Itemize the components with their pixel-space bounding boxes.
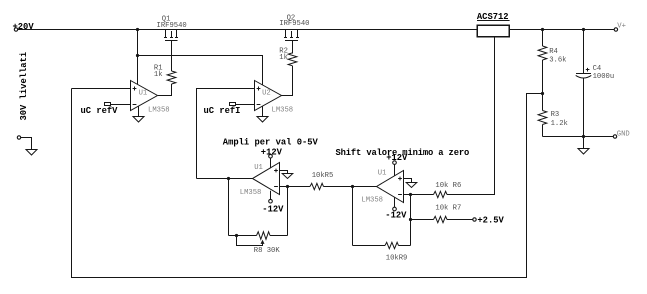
node uC refI port bbox=[230, 103, 236, 106]
svg-text:uC refI: uC refI bbox=[204, 106, 241, 116]
svg-text:IRF9540: IRF9540 bbox=[157, 22, 187, 30]
svg-text:LM358: LM358 bbox=[240, 189, 262, 197]
node +20V terminal bbox=[13, 22, 35, 32]
sensor ACS712 bbox=[477, 12, 510, 37]
wire ACS712 out to V+ bbox=[509, 29, 614, 31]
wire junction dot R9 tap bbox=[351, 185, 354, 188]
node -12V stage1 bbox=[262, 191, 284, 215]
resistor R3 bbox=[538, 94, 547, 137]
wire uC refV to U1 inverting input bbox=[111, 104, 132, 106]
op-amp U1 stage1 mirrored bbox=[253, 163, 280, 195]
wire junction dot stage1 output bbox=[227, 177, 230, 180]
resistor R6 bbox=[434, 191, 448, 197]
svg-text:R3: R3 bbox=[551, 111, 560, 119]
svg-text:30V livellati: 30V livellati bbox=[19, 52, 29, 121]
transistor Q2 bbox=[284, 30, 299, 41]
ground U2 V- bbox=[257, 106, 268, 122]
wire U2 noninverting input from stage1 output bbox=[197, 89, 255, 179]
svg-text:C4: C4 bbox=[593, 65, 602, 73]
svg-text:1.2k: 1.2k bbox=[551, 120, 568, 128]
wire stage1 inverting row bbox=[280, 186, 311, 188]
op-amp U1 shift mirrored bbox=[377, 171, 404, 203]
wire R7 to +2.5V terminal bbox=[447, 219, 473, 221]
wire junction dot rail2 bbox=[136, 54, 139, 57]
svg-text:10k R6: 10k R6 bbox=[435, 182, 461, 190]
wire U1 noninverting input to left loop bbox=[72, 88, 132, 90]
wire shift inverting row to R6 bbox=[404, 194, 434, 196]
wire stage1 output bbox=[197, 178, 253, 180]
svg-text:V+: V+ bbox=[617, 23, 626, 31]
wire R5 to shift output bbox=[324, 186, 378, 188]
svg-text:LM358: LM358 bbox=[148, 106, 170, 114]
node V+ terminal bbox=[614, 23, 626, 31]
wire uC refI to U2 inverting input bbox=[236, 104, 255, 106]
ground input connector bbox=[26, 150, 37, 156]
capacitor C4 bbox=[576, 30, 592, 137]
transistor Q1 bbox=[164, 30, 178, 41]
svg-text:U2: U2 bbox=[262, 89, 271, 97]
svg-text:R8 30K: R8 30K bbox=[254, 247, 281, 255]
svg-text:LM358: LM358 bbox=[272, 106, 294, 114]
node GND terminal bbox=[613, 131, 629, 139]
svg-text:uC refV: uC refV bbox=[81, 106, 119, 116]
svg-text:-12V: -12V bbox=[385, 210, 407, 220]
wire junction dot R8 to inverting bbox=[286, 185, 289, 188]
wire U2 output to R2 bbox=[282, 66, 293, 96]
wire junction dot C4 top bbox=[582, 28, 585, 31]
wire vertical +20V to U1 V+ pin bbox=[137, 30, 139, 85]
ground main GND bbox=[578, 137, 589, 155]
svg-text:U1: U1 bbox=[139, 89, 148, 97]
wire R3 to GND terminal bbox=[543, 136, 614, 138]
node input ground terminal bbox=[17, 136, 31, 150]
resistor R8 trimmer bbox=[229, 179, 288, 246]
svg-text:Ampli per val 0-5V: Ampli per val 0-5V bbox=[223, 137, 319, 147]
wire R6 to ACS712 out bbox=[447, 37, 495, 194]
node -12V shift bbox=[385, 197, 407, 220]
wire junction dot R7 tap bbox=[409, 218, 412, 221]
wire rail2 to U2 V+ bbox=[138, 56, 263, 86]
wire left feedback loop bbox=[72, 89, 543, 278]
svg-text:10kR5: 10kR5 bbox=[312, 172, 334, 180]
svg-text:+2.5V: +2.5V bbox=[477, 215, 504, 225]
resistor R1 bbox=[167, 71, 176, 84]
wire junction dot rail to U1 V+ bbox=[136, 28, 139, 31]
svg-text:U1: U1 bbox=[254, 164, 263, 172]
wire +20V top rail bbox=[18, 29, 477, 31]
wire junction dot divider bbox=[541, 92, 544, 95]
svg-text:+20V: +20V bbox=[13, 22, 35, 32]
resistor R4 bbox=[538, 30, 547, 94]
wire junction dot C4 bottom bbox=[582, 135, 585, 138]
wire junction dot R4 top bbox=[541, 28, 544, 31]
op-amp U1 bbox=[131, 81, 158, 111]
ground stage1 noninverting input bbox=[280, 171, 293, 179]
svg-text:-12V: -12V bbox=[262, 204, 284, 214]
wire R7 row bbox=[411, 219, 434, 221]
node +2.5V terminal bbox=[473, 215, 505, 225]
svg-text:+12V: +12V bbox=[386, 153, 408, 163]
wire R2 to Q2 gate bbox=[292, 41, 294, 54]
resistor R9 bbox=[353, 187, 411, 249]
node +12V stage1 bbox=[261, 148, 283, 169]
resistor R5 bbox=[310, 183, 324, 189]
resistor R2 bbox=[288, 53, 297, 66]
svg-text:3.6k: 3.6k bbox=[549, 56, 566, 64]
svg-text:10k R7: 10k R7 bbox=[435, 205, 461, 213]
op-amp U2 bbox=[255, 81, 282, 111]
svg-text:IRF9540: IRF9540 bbox=[279, 20, 309, 28]
svg-text:U1: U1 bbox=[378, 170, 387, 178]
svg-text:1k: 1k bbox=[154, 71, 163, 79]
svg-text:10kR9: 10kR9 bbox=[386, 254, 408, 262]
svg-text:+12V: +12V bbox=[261, 148, 283, 158]
resistor R7 bbox=[434, 216, 448, 222]
wire inverting down leg bbox=[410, 195, 412, 246]
wire R1 to U1 output bbox=[158, 84, 172, 96]
svg-text:R4: R4 bbox=[549, 48, 558, 56]
ground shift noninverting input bbox=[404, 179, 417, 188]
wire junction dot shift inverting bbox=[409, 193, 412, 196]
ground U1 V- bbox=[133, 106, 144, 122]
svg-text:1000u: 1000u bbox=[593, 73, 615, 81]
node +12V shift bbox=[386, 153, 408, 176]
svg-text:LM358: LM358 bbox=[361, 196, 383, 204]
svg-text:1k: 1k bbox=[279, 54, 288, 62]
wire Q1 gate down to R1 bbox=[171, 41, 173, 72]
svg-text:GND: GND bbox=[617, 131, 630, 139]
node uC refV port bbox=[105, 103, 111, 106]
